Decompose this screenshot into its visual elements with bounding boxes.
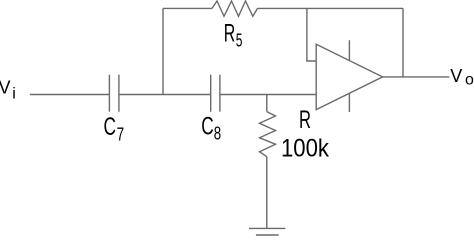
svg-text:i: i	[12, 85, 16, 102]
svg-text:o: o	[465, 71, 474, 88]
svg-text:C: C	[201, 112, 214, 140]
svg-text:100k: 100k	[281, 135, 329, 163]
svg-text:R: R	[224, 20, 236, 48]
svg-text:C: C	[104, 113, 117, 141]
svg-text:V: V	[450, 66, 462, 86]
svg-text:8: 8	[214, 124, 221, 144]
svg-text:R: R	[299, 106, 311, 134]
svg-text:7: 7	[117, 125, 125, 145]
svg-text:V: V	[0, 77, 11, 97]
svg-text:5: 5	[236, 31, 243, 51]
